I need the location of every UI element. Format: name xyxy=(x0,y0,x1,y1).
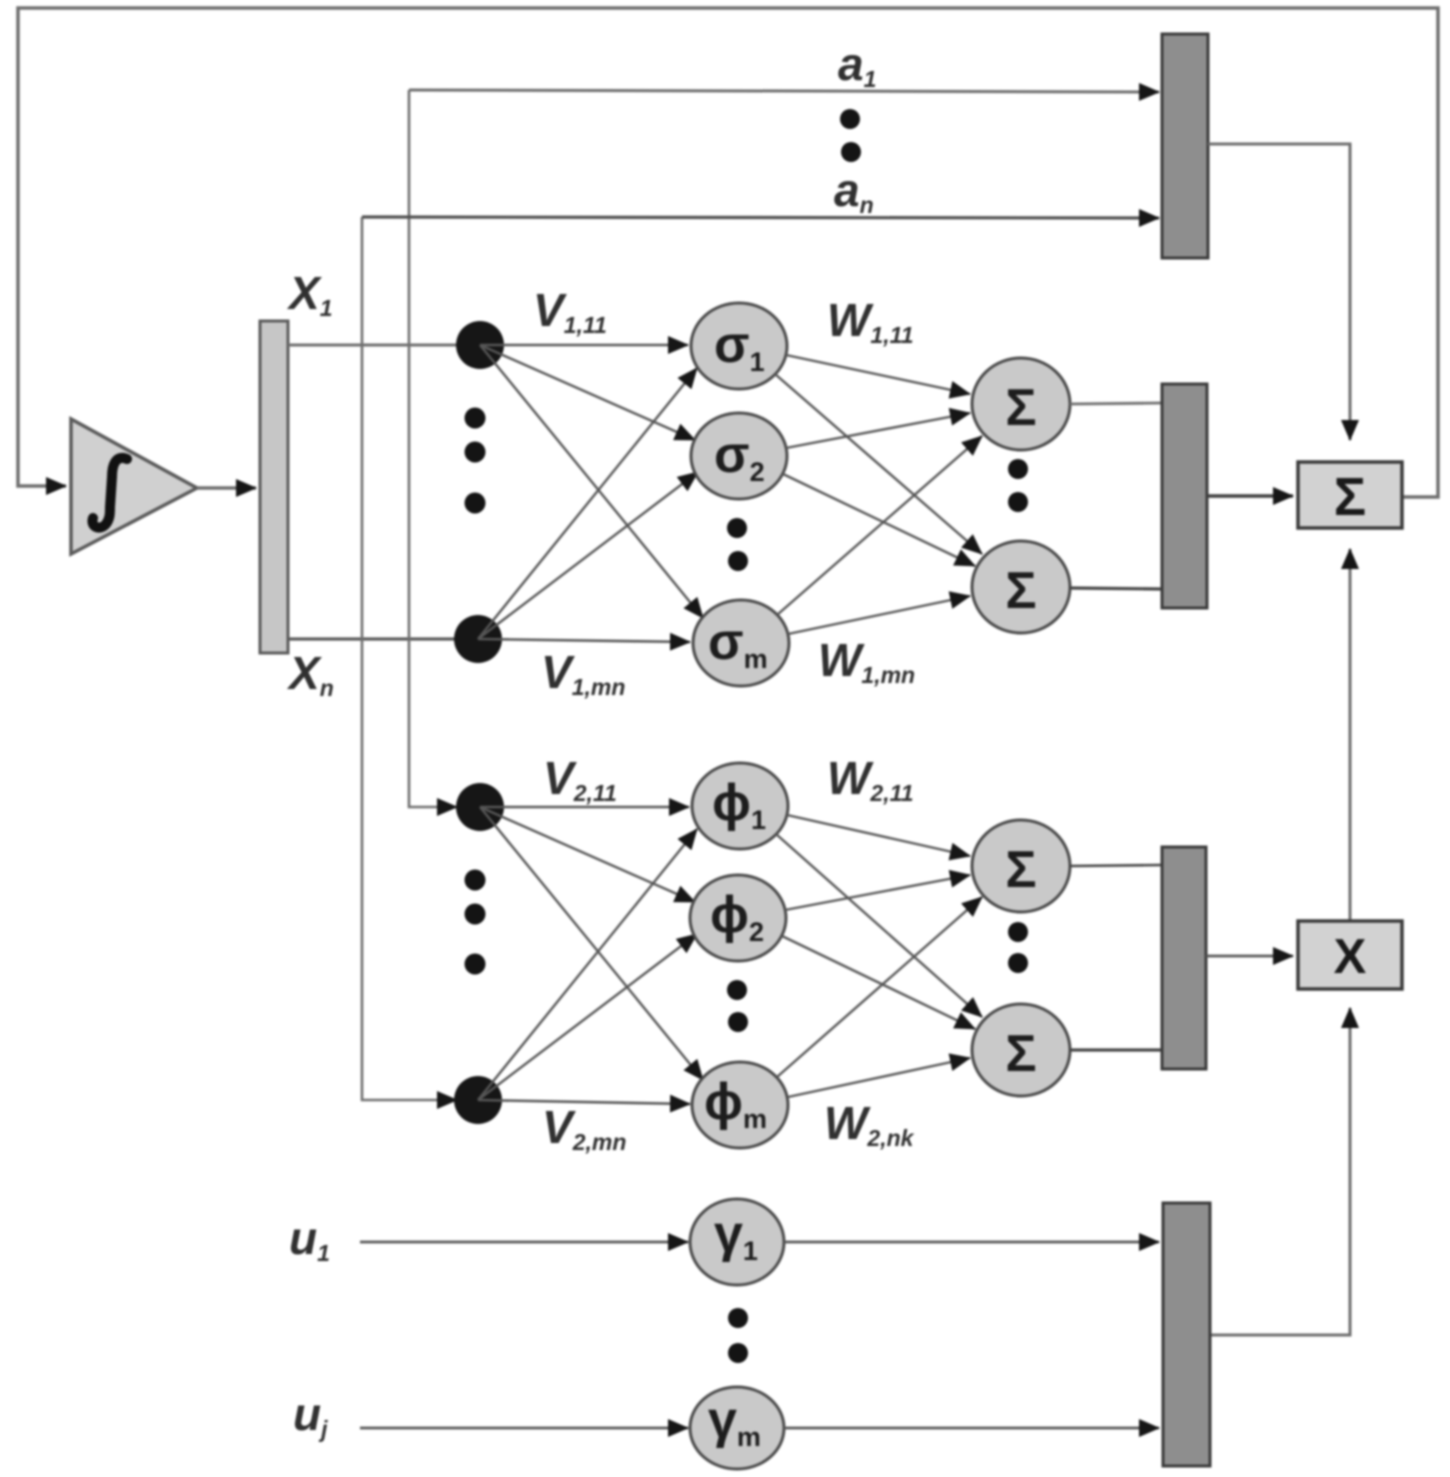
wire sigmam to sum2 xyxy=(788,596,970,634)
wire X1 from state bar to input node xyxy=(288,344,480,347)
wire xn to sigma2 xyxy=(478,472,698,639)
wire a1 tap down to second network input xyxy=(409,90,457,807)
integrator block xyxy=(71,419,197,554)
neuron gammam xyxy=(690,1387,784,1469)
wire bar B to sum box xyxy=(1207,494,1293,498)
sum box xyxy=(1298,462,1402,528)
ellipsis input dots network1 xyxy=(465,408,486,429)
sum node 4 xyxy=(972,1004,1070,1096)
neuron phi1 xyxy=(692,763,788,849)
svg-text:Σ: Σ xyxy=(1005,841,1036,899)
sum node 3 xyxy=(972,820,1070,912)
weight bar B (network 1 output) xyxy=(1162,384,1207,608)
wire phi1 to sum3 xyxy=(787,815,970,856)
wire x to phi1 xyxy=(480,806,689,809)
wire feedback loop from sum box output around top to integrator input xyxy=(18,8,1438,497)
wire sigma1 to sum1 xyxy=(786,355,970,394)
state vector bar xyxy=(260,321,288,653)
wire xn to phi2 xyxy=(478,934,697,1100)
wire bar C to multiply box xyxy=(1206,955,1293,958)
svg-text:Σ: Σ xyxy=(1005,1025,1036,1083)
wire sum1 to weight bar B xyxy=(1070,403,1162,404)
node input dot network2 top xyxy=(456,783,504,831)
wire phi2 to sum3 xyxy=(785,875,970,910)
wire sum3 to weight bar C xyxy=(1070,865,1162,866)
node input dot xn xyxy=(454,615,502,663)
neuron sigmam xyxy=(693,600,789,686)
wire multiply box up to sum box bottom xyxy=(1349,549,1352,921)
neuron phim xyxy=(692,1062,788,1148)
wire phim to sum3 xyxy=(777,897,982,1077)
ellipsis input dots network2 xyxy=(465,870,486,891)
gamma weight bar xyxy=(1163,1203,1210,1466)
weight bar A (a-vector) xyxy=(1162,34,1208,258)
wire phi2 to sum4 xyxy=(782,936,975,1029)
wire integrator output to state bar xyxy=(197,486,256,490)
wire bar A down to sum box top xyxy=(1208,144,1350,440)
wire sigmam to sum1 xyxy=(777,436,982,615)
wire sigma2 to sum1 xyxy=(786,413,970,448)
wire gamma1 to gamma bar xyxy=(784,1241,1159,1244)
sum node 2 xyxy=(972,541,1070,633)
neuron phi2 xyxy=(690,875,786,961)
wire u1 to gamma1 xyxy=(360,1241,688,1244)
wire x to phim xyxy=(480,807,703,1080)
ellipsis sum dots network2 xyxy=(1008,922,1028,942)
wire Xn from state bar to input node xyxy=(288,637,480,640)
wire phim to sum4 xyxy=(788,1058,970,1097)
wire sigma2 to sum2 xyxy=(783,474,975,566)
wire an to top weight bar xyxy=(362,217,1159,218)
ellipsis gamma dots xyxy=(728,1308,748,1328)
wire x to phi2 xyxy=(480,807,695,902)
sum node 1 xyxy=(972,358,1070,450)
svg-text:Σ: Σ xyxy=(1005,379,1036,437)
wire an tap down to second network input xyxy=(362,217,457,1100)
multiply box xyxy=(1298,921,1402,989)
wire x1 to sigma2 xyxy=(480,345,695,440)
wire uj to gammam xyxy=(360,1427,688,1430)
node input dot x1 xyxy=(456,321,504,369)
wire sum4 to weight bar C xyxy=(1070,1048,1162,1051)
wire xn to phi1 xyxy=(478,829,697,1100)
ellipsis dots a xyxy=(840,109,860,129)
neuron sigma2 xyxy=(691,413,787,499)
ellipsis sum dots network1 xyxy=(1008,459,1028,479)
wire x1 to sigma1 xyxy=(480,344,688,347)
wire sum2 to weight bar B xyxy=(1070,588,1162,589)
wire xn to phim xyxy=(478,1100,690,1104)
wire gammam to gamma bar xyxy=(784,1427,1159,1430)
wire x1 to sigmam xyxy=(480,345,703,618)
svg-text:Σ: Σ xyxy=(1334,467,1366,527)
wire a1 to top weight bar xyxy=(409,90,1159,92)
ellipsis sigma dots xyxy=(727,518,747,538)
wire sigma1 to sum2 xyxy=(775,374,982,554)
wire gamma bar up to multiply box bottom xyxy=(1210,1008,1350,1335)
ellipsis phi dots xyxy=(727,980,747,1000)
svg-text:X: X xyxy=(1334,930,1367,984)
neuron gamma1 xyxy=(690,1199,784,1285)
wire xn to sigmam xyxy=(478,639,690,642)
wire xn to sigma1 xyxy=(478,368,697,639)
wire phi1 to sum4 xyxy=(776,834,982,1017)
weight bar C (network 2 output) xyxy=(1162,847,1206,1069)
node input dot network2 bottom xyxy=(454,1076,502,1124)
svg-text:Σ: Σ xyxy=(1005,562,1036,620)
neuron sigma1 xyxy=(691,303,787,389)
